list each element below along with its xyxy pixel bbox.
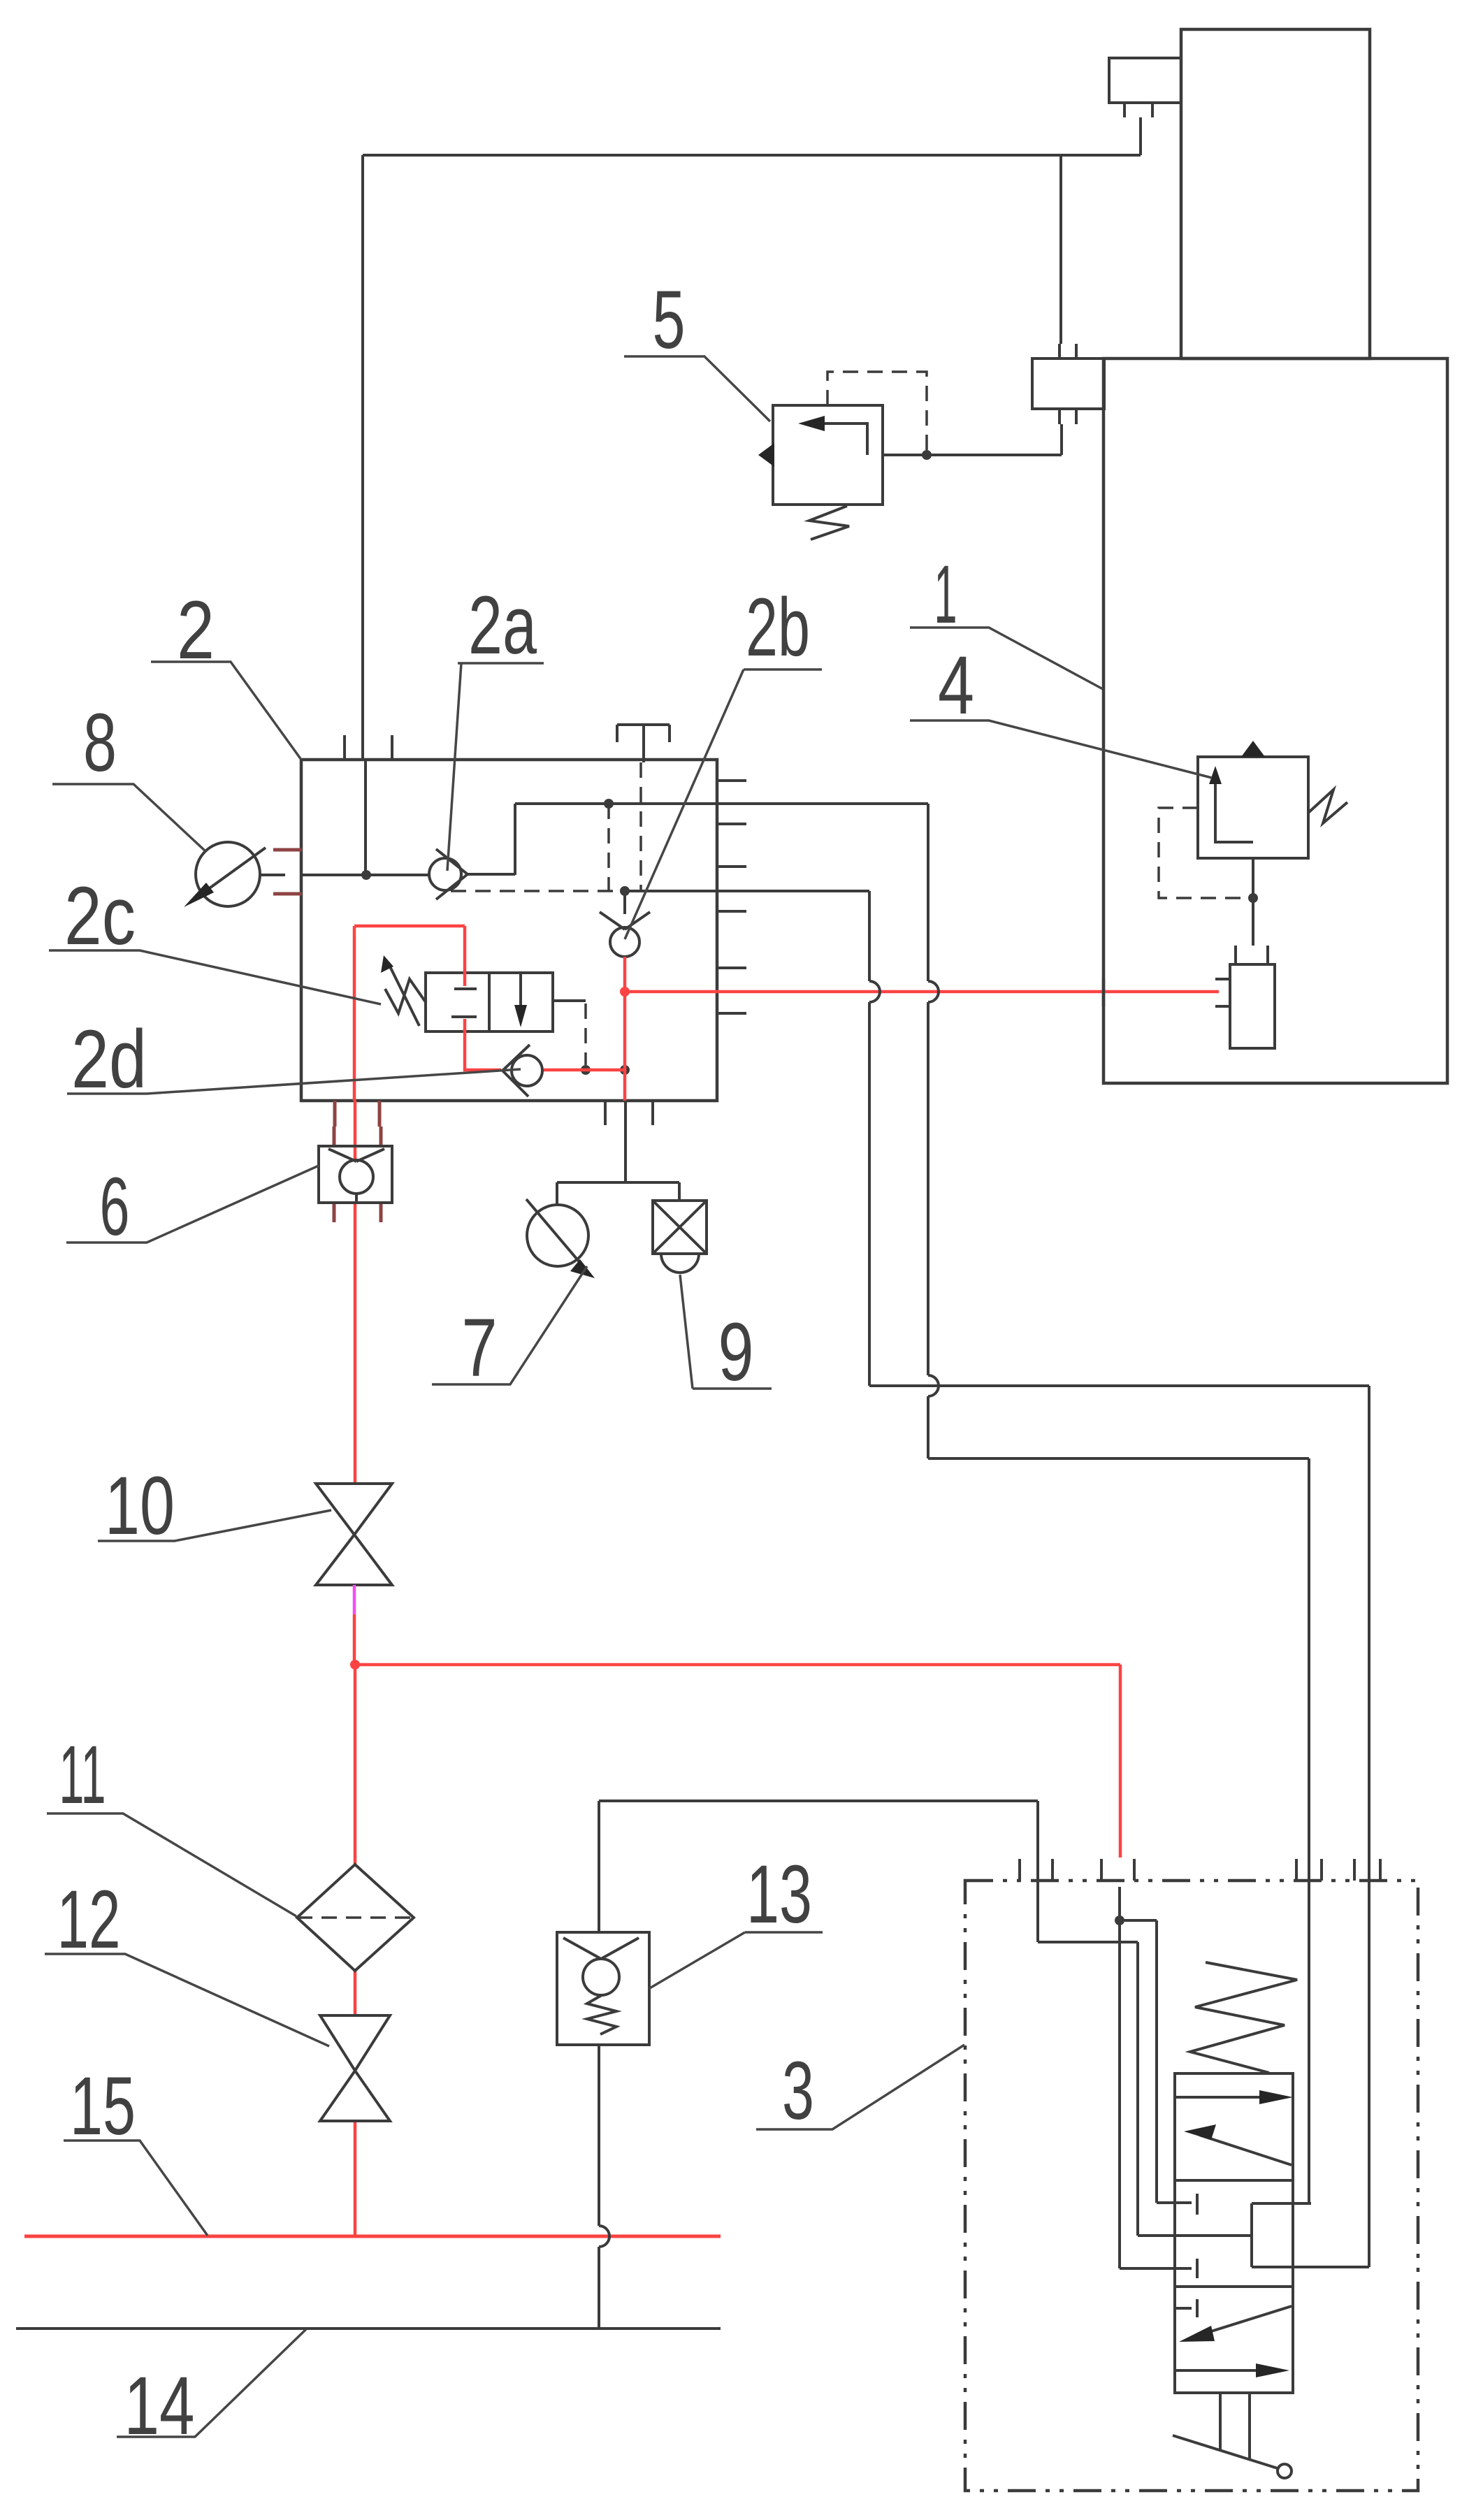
node red tee bbox=[350, 1660, 360, 1670]
svg-text:2d: 2d bbox=[71, 1013, 147, 1106]
port ticks top of block 2 bbox=[345, 735, 392, 760]
gauge 8 stub bbox=[260, 874, 285, 876]
svg-text:6: 6 bbox=[100, 1161, 130, 1253]
svg-text:1: 1 bbox=[934, 549, 957, 641]
manual lever bbox=[1173, 2435, 1278, 2468]
connector block on cylinder bbox=[1109, 58, 1181, 103]
wire vertical into unit 3 right B bbox=[1308, 1458, 1310, 2203]
pilot dashed vertical from node bbox=[607, 804, 610, 891]
svg-text:2b: 2b bbox=[746, 581, 810, 674]
position 3 straight arrow bbox=[1175, 2369, 1266, 2372]
gauge 8 bbox=[196, 842, 260, 906]
check valve 2a bbox=[429, 858, 461, 890]
port ticks right edge block 2 bbox=[717, 781, 746, 1013]
leader 2c bbox=[49, 950, 381, 1004]
relief valve 5 body bbox=[773, 405, 883, 505]
wire red branch to unit 3 bbox=[355, 1665, 1120, 1858]
leader 12 bbox=[45, 1954, 329, 2046]
wire top supply horizontal bbox=[363, 154, 1141, 157]
valve 4 internal arrow bbox=[1215, 781, 1253, 842]
leader 7 bbox=[432, 1266, 587, 1384]
red circuit lines bbox=[24, 926, 1219, 2236]
check valve 13 poppet bbox=[583, 1959, 619, 1995]
valve 2c pilot stub bbox=[553, 999, 586, 1002]
shutoff valve 10 bbox=[316, 1484, 392, 1535]
valve 2c spring and adjust arrow bbox=[385, 979, 426, 1013]
port ticks above connector b bbox=[1059, 344, 1076, 359]
machine body box 1 bbox=[1104, 359, 1447, 1083]
node pilot junction bbox=[1248, 893, 1258, 903]
wire left entry down inside unit 3 bbox=[1038, 1801, 1252, 2236]
position 3 blocked port bbox=[1175, 2299, 1197, 2317]
position 1 diagonal arrow bbox=[1199, 2135, 1292, 2165]
wire top supply vertical to manifold 2 bbox=[361, 155, 364, 760]
port ticks dark left edge bbox=[273, 850, 302, 894]
svg-text:9: 9 bbox=[718, 1306, 754, 1398]
valve 2c body bbox=[426, 973, 553, 1031]
svg-text:2a: 2a bbox=[468, 579, 537, 672]
port ticks bottom block 2 bbox=[605, 1101, 653, 1125]
shutoff valve 12 bbox=[320, 2015, 390, 2071]
node pilot tap bbox=[604, 799, 614, 809]
wire red below valve 10 bbox=[353, 1614, 356, 1665]
port ticks above check valve 6 bbox=[334, 1127, 381, 1146]
check valve 13 spring bbox=[587, 1995, 616, 2034]
port ticks below check valve 6 bbox=[334, 1203, 381, 1222]
svg-text:3: 3 bbox=[782, 2045, 814, 2137]
wire red port continuation black bbox=[1118, 1887, 1121, 2268]
svg-text:11: 11 bbox=[59, 1729, 106, 1821]
valve 5 pilot dashed line bbox=[827, 372, 927, 450]
valve 2c flow arrow bbox=[519, 973, 522, 1007]
air unit 3 boundary dash-dot bbox=[965, 1881, 1418, 2491]
valve 5 spring bbox=[809, 506, 849, 540]
wire red into valve 2c bbox=[463, 926, 467, 1031]
svg-text:12: 12 bbox=[57, 1874, 121, 1966]
leader 10 bbox=[98, 1510, 331, 1541]
port ticks on unit 3 boundary bbox=[1020, 1859, 1380, 1881]
wire block 2 to gauges bbox=[557, 1101, 679, 1205]
leader 3 bbox=[756, 2045, 964, 2129]
actuator left stubs bbox=[1215, 979, 1230, 1006]
svg-text:8: 8 bbox=[83, 697, 117, 789]
wire main line to check valve 2a bbox=[301, 874, 429, 876]
svg-text:7: 7 bbox=[462, 1302, 498, 1394]
leader lines bbox=[45, 356, 1212, 2437]
position 1 straight arrow bbox=[1175, 2096, 1271, 2099]
leader 9 bbox=[680, 1275, 772, 1389]
wire red filter to valve 12 bbox=[354, 1971, 357, 2015]
wire branch to valve port bbox=[1120, 1920, 1192, 2203]
check valve 2d bbox=[512, 1055, 542, 1086]
leader 8 bbox=[52, 784, 205, 851]
wire line B horizontal to unit 3 bbox=[928, 1457, 1309, 1460]
leader 2 bbox=[151, 662, 301, 760]
leader 11 bbox=[47, 1813, 296, 1916]
leader 15 bbox=[64, 2141, 208, 2236]
node supply junction bbox=[361, 870, 371, 880]
node pilot to red bbox=[581, 1065, 591, 1075]
wire red 2b down bbox=[623, 957, 627, 1101]
svg-text:14: 14 bbox=[124, 2360, 195, 2452]
wire right line A with hops bbox=[869, 891, 880, 1386]
port bar bbox=[1196, 2194, 1199, 2215]
port ticks under connector bbox=[1124, 103, 1152, 117]
leader 14 bbox=[117, 2329, 306, 2437]
vent symbol on block 2 bbox=[617, 725, 670, 762]
leader 1 bbox=[910, 628, 1103, 689]
pipeline 14 bbox=[16, 2327, 721, 2330]
svg-text:4: 4 bbox=[938, 639, 974, 732]
position 3 diagonal arrow bbox=[1198, 2306, 1292, 2336]
port ticks dark bottom red port bbox=[335, 1101, 379, 1127]
pilot dashed horizontal bbox=[451, 890, 622, 892]
gauge 7 bbox=[527, 1205, 588, 1266]
wire valve 4 to actuator bbox=[1252, 858, 1254, 946]
wire red valve 12 to line 15 bbox=[354, 2121, 357, 2236]
check valve 6 poppet bbox=[340, 1160, 373, 1194]
pipeline 15 bbox=[24, 2235, 721, 2238]
connector block b on box 1 bbox=[1032, 359, 1104, 409]
valve 5 inlet triangle bbox=[758, 443, 774, 467]
wire right line B with hops bbox=[928, 804, 939, 1458]
port ticks below connector b bbox=[1059, 409, 1076, 424]
wire supply into block bbox=[364, 760, 367, 875]
wire check 13 down with hop bbox=[599, 2045, 609, 2329]
valve 2c blocked bars bbox=[451, 989, 477, 1017]
test coupling 9 bbox=[678, 1182, 681, 1201]
svg-text:13: 13 bbox=[746, 1848, 812, 1941]
check valve 13 body bbox=[557, 1932, 649, 2045]
actuator port ticks bbox=[1236, 946, 1268, 964]
check valve 2b bbox=[600, 891, 650, 929]
filter 11 bbox=[297, 1864, 414, 1971]
valve right side step wires bbox=[1252, 2203, 1369, 2267]
leader 2b bbox=[625, 669, 822, 939]
svg-text:10: 10 bbox=[105, 1460, 175, 1552]
leader 4 bbox=[910, 720, 1212, 778]
valve 4 vent triangle bbox=[1241, 741, 1265, 757]
leader 2a bbox=[447, 663, 544, 871]
wire 2b port line out bbox=[625, 890, 869, 892]
valve 5 internal arrow bbox=[811, 423, 867, 455]
pilot valve of unit 3 body bbox=[1175, 2073, 1293, 2393]
svg-text:5: 5 bbox=[653, 274, 686, 366]
node junction on valve 5 line bbox=[922, 450, 932, 460]
node red junction bbox=[620, 987, 630, 997]
wire from top line down to connector b bbox=[1059, 155, 1062, 344]
svg-text:2c: 2c bbox=[64, 870, 136, 962]
wire 2a to right port bbox=[468, 804, 928, 875]
wire vertical into unit 3 right A bbox=[1368, 1386, 1370, 2267]
wire check 13 to unit 3 bbox=[599, 1801, 1038, 1932]
svg-text:15: 15 bbox=[70, 2060, 136, 2152]
wire connector b to valve 5 line bbox=[883, 424, 1062, 455]
valve 4 pilot dashed loop bbox=[1159, 808, 1248, 898]
wire line A horizontal to unit 3 bbox=[869, 1384, 1369, 1387]
svg-text:2: 2 bbox=[177, 584, 215, 676]
wire red to filter 11 bbox=[354, 1665, 357, 1864]
wire red loop top bbox=[354, 926, 465, 1101]
leader 2d bbox=[67, 1069, 521, 1094]
check valve 6 body bbox=[319, 1146, 392, 1203]
wire red to actuator 4 bbox=[625, 990, 1219, 994]
wire red through check 6 bbox=[354, 1101, 357, 1484]
leader 13 bbox=[649, 1932, 823, 1989]
valve spring diagonal bbox=[1190, 1962, 1297, 2073]
magenta segment below valve 10 bbox=[353, 1585, 356, 1614]
cylinder 1 upper body bbox=[1181, 29, 1370, 359]
manifold block 2 bbox=[301, 760, 717, 1101]
node valve 2b junction bbox=[620, 886, 630, 896]
port bar bbox=[1196, 2259, 1199, 2278]
valve 4 spring bbox=[1308, 790, 1347, 823]
wire main to valve port bbox=[1120, 2267, 1192, 2270]
wire connector stub bbox=[1139, 117, 1142, 155]
wire red 2c to 2d bbox=[465, 1031, 625, 1070]
node unit 3 junction bbox=[1115, 1916, 1124, 1925]
wire box 1 edge over red crossing bbox=[1102, 978, 1106, 1006]
leader 6 bbox=[66, 1166, 319, 1243]
actuator of valve 4 bbox=[1230, 964, 1275, 1048]
leader 5 bbox=[624, 356, 770, 421]
pilot dashed vertical from vent bbox=[639, 762, 642, 891]
pressure valve 4 body bbox=[1198, 757, 1308, 858]
